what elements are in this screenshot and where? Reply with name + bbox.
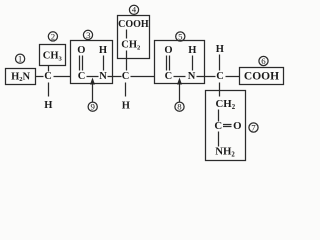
bond CH2 to C (amide) bbox=[218, 110, 220, 122]
svg-text:8: 8 bbox=[177, 102, 182, 112]
svg-text:C: C bbox=[214, 120, 222, 132]
svg-text:C: C bbox=[78, 71, 86, 82]
bond H2N box to C1 bbox=[36, 76, 44, 78]
svg-text:H: H bbox=[44, 100, 52, 111]
box peptide bond 5 bbox=[155, 41, 205, 84]
bond C3 to COOH box 6 bbox=[226, 76, 240, 78]
box H2N (amino group) bbox=[6, 69, 36, 85]
circle label 6 bbox=[259, 56, 268, 66]
svg-text:O: O bbox=[77, 45, 85, 56]
bond CH2 to C2 bbox=[126, 51, 128, 71]
svg-text:6: 6 bbox=[261, 56, 266, 66]
double bond O=C bbox=[79, 56, 81, 71]
svg-text:O: O bbox=[164, 45, 172, 56]
box CH3 (R group 1) bbox=[40, 45, 66, 66]
box R group 2 (COOH-CH2) bbox=[118, 16, 150, 59]
svg-text:O: O bbox=[233, 120, 241, 132]
double bond O=C bbox=[166, 56, 168, 71]
circle label 4 bbox=[129, 5, 138, 15]
box R group 3 (amide side chain) bbox=[206, 91, 246, 161]
arrow 8 pointing to peptide bond 5 bbox=[177, 78, 182, 103]
svg-text:C: C bbox=[44, 71, 52, 82]
circle label 8 bbox=[175, 102, 184, 112]
bond C3 down into box 7 bbox=[219, 83, 221, 97]
svg-text:9: 9 bbox=[90, 102, 95, 112]
circle label 5 bbox=[176, 31, 185, 41]
bond N to C2 bbox=[108, 76, 122, 78]
bond C2 to peptide box 5 bbox=[131, 76, 155, 78]
circle label 2 bbox=[48, 31, 57, 41]
svg-text:4: 4 bbox=[132, 5, 137, 15]
svg-text:H: H bbox=[122, 100, 130, 111]
single bond H-N bbox=[103, 56, 105, 71]
svg-text:H: H bbox=[216, 44, 224, 55]
svg-text:N: N bbox=[99, 71, 107, 82]
svg-text:C: C bbox=[122, 71, 130, 82]
bond C to NH2 bbox=[218, 132, 220, 147]
circle label 7 bbox=[249, 123, 258, 133]
bond C2 down to H bbox=[125, 83, 127, 97]
svg-text:3: 3 bbox=[86, 30, 91, 40]
bond C-N (peptide 3) bbox=[87, 76, 99, 78]
box COOH (carboxyl group) bbox=[240, 68, 284, 85]
svg-text:7: 7 bbox=[251, 123, 256, 133]
arrow 9 pointing to peptide bond 3 bbox=[90, 78, 95, 103]
svg-text:COOH: COOH bbox=[118, 19, 149, 30]
box peptide bond 3 bbox=[71, 41, 113, 84]
bond H to C3 bbox=[219, 55, 221, 71]
circle label 9 bbox=[88, 102, 97, 112]
svg-text:H: H bbox=[188, 45, 196, 56]
bond C1 down to H bbox=[48, 83, 50, 97]
bond C-N (peptide 5) bbox=[174, 76, 186, 78]
svg-text:C: C bbox=[165, 71, 173, 82]
circle label 3 bbox=[83, 30, 92, 40]
bond CH3 box to C1 bbox=[48, 66, 50, 72]
bond C1 to peptide box 3 bbox=[54, 76, 71, 78]
bond COOH to CH2 bbox=[126, 30, 128, 39]
circle label 1 bbox=[16, 54, 25, 64]
bond N to C3 bbox=[197, 76, 216, 78]
svg-text:C: C bbox=[216, 71, 224, 82]
svg-text:1: 1 bbox=[18, 54, 22, 64]
double bond C=O horizontal bbox=[223, 124, 232, 126]
svg-text:COOH: COOH bbox=[244, 71, 279, 83]
single bond H-N bbox=[192, 56, 194, 71]
svg-text:2: 2 bbox=[51, 31, 55, 41]
svg-text:H: H bbox=[99, 45, 107, 56]
svg-text:N: N bbox=[188, 71, 196, 82]
